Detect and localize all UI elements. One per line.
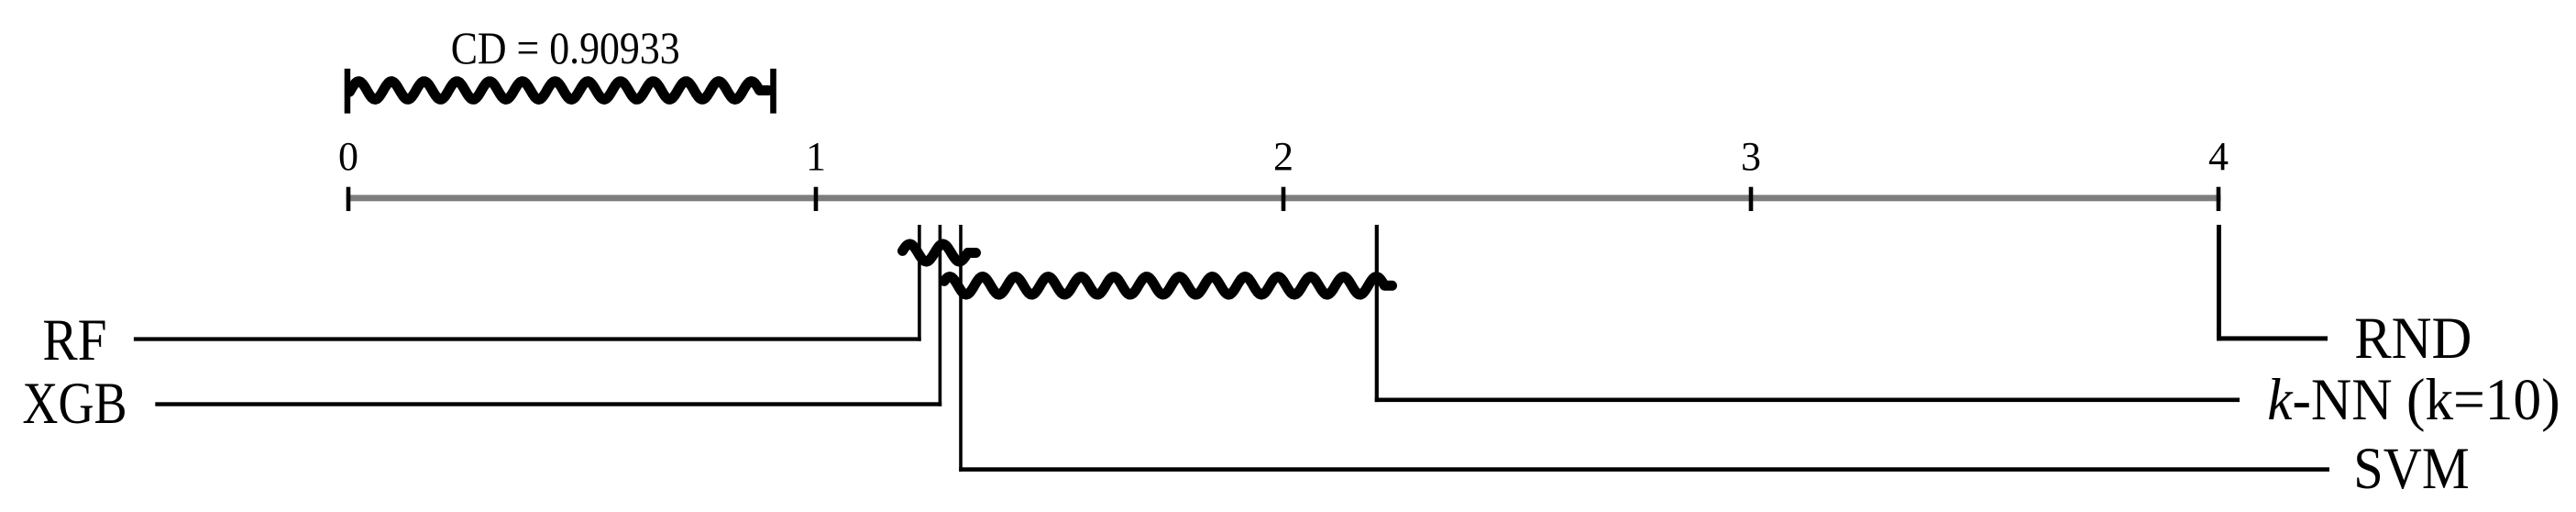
XGB connector: [155, 402, 941, 406]
SVM connector: [959, 467, 2329, 472]
CD interval right cap: [770, 69, 776, 114]
XGB vertical: [939, 225, 942, 406]
kNN vertical: [1375, 225, 1379, 402]
axis line: [347, 195, 2221, 201]
svg-text:CD = 0.90933: CD = 0.90933: [451, 22, 680, 73]
svg-text:SVM: SVM: [2353, 436, 2470, 502]
svg-text:RF: RF: [42, 307, 106, 373]
svg-text:3: 3: [1741, 134, 1761, 179]
svg-text:4: 4: [2208, 134, 2229, 179]
CD interval left cap: [345, 69, 351, 114]
svg-text:1: 1: [806, 134, 826, 179]
clique 1 wavy line (RF-XGB-SVM): [903, 244, 976, 262]
kNN connector: [1375, 398, 2240, 403]
svg-text:2: 2: [1273, 134, 1294, 179]
tick 0: [347, 187, 351, 211]
tick 2: [1282, 187, 1286, 211]
RND connector: [2217, 336, 2328, 340]
svg-text:RND: RND: [2354, 306, 2471, 372]
RF connector: [134, 337, 921, 340]
tick 3: [1749, 187, 1754, 211]
RND vertical: [2217, 225, 2221, 340]
tick 1: [814, 187, 819, 211]
tick 4: [2217, 187, 2221, 211]
CD interval wavy bar: [350, 82, 769, 100]
SVM vertical: [959, 225, 963, 472]
svg-text:0: 0: [338, 134, 358, 179]
svg-text:k-NN (k=10): k-NN (k=10): [2267, 367, 2560, 433]
RF vertical: [918, 225, 921, 341]
svg-text:XGB: XGB: [22, 371, 127, 437]
clique 2 wavy line (SVM-kNN): [944, 277, 1393, 295]
